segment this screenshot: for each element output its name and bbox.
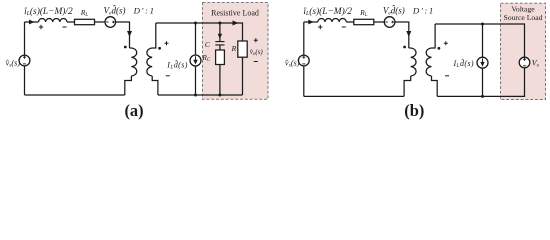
svg-text:(b): (b) [404, 101, 424, 120]
voltage source V_o [519, 57, 530, 68]
wire secondary bottom rail (b) [437, 68, 524, 97]
svg-text:(a): (a) [124, 101, 143, 120]
secondary polarity + [165, 41, 169, 45]
svg-text:îL(s)(L−M)/2: îL(s)(L−M)/2 [24, 6, 73, 17]
current arrow i_L (b) [308, 20, 314, 25]
svg-text:Ved̂(s): Ved̂(s) [104, 5, 126, 17]
arrow into C [218, 34, 222, 39]
wire bottom primary [304, 95, 404, 97]
resistor R_L (b) [354, 19, 374, 24]
wire to transformer [395, 22, 409, 48]
svg-text:ILd̂(s): ILd̂(s) [452, 57, 474, 69]
phase dot secondary [438, 47, 441, 50]
wire left rail [303, 22, 305, 96]
svg-text:D′:1: D′:1 [412, 5, 435, 15]
inductor (L-M)/2 (b) [318, 19, 346, 22]
svg-text:Ved̂(s): Ved̂(s) [383, 5, 405, 17]
source v_s (b) [298, 55, 309, 66]
v_o polarity + [254, 38, 258, 42]
arrow into transformer [406, 31, 411, 37]
wire [374, 21, 385, 23]
capacitor C [215, 42, 224, 45]
wire current source branch (a) [195, 23, 197, 95]
load box Resistive Load [203, 3, 269, 100]
svg-text:R: R [231, 44, 237, 53]
current source I_L d(s) (a) [190, 55, 201, 66]
wire capacitor branch [219, 23, 221, 50]
wire [346, 21, 354, 23]
inductor polarity + [318, 25, 322, 29]
transformer primary winding (a) [125, 48, 137, 95]
svg-text:v̂s(s): v̂s(s) [6, 58, 21, 68]
inductor polarity - [342, 26, 346, 28]
transformer secondary winding (a) [147, 23, 158, 95]
source v_s (a) [19, 55, 30, 66]
dependent source Ve*d(s) (b) [384, 17, 395, 28]
resistor R [238, 41, 247, 57]
junction dot [481, 95, 484, 98]
load box Voltage Source Load [501, 3, 546, 99]
current arrow i_L (a) [29, 20, 35, 25]
svg-text:îL(s)(L−M)/2: îL(s)(L−M)/2 [303, 6, 352, 17]
junction dot [194, 94, 197, 97]
junction dot [218, 22, 221, 25]
current source I_L d(s) (b) [477, 57, 488, 68]
wire [67, 21, 75, 23]
transformer primary winding (b) [404, 48, 416, 96]
svg-text:v̂o(s): v̂o(s) [250, 48, 264, 57]
arrow into transformer [127, 31, 132, 37]
wire below R [242, 57, 244, 95]
inductor (L-M)/2 (a) [39, 19, 67, 22]
svg-text:Resistive Load: Resistive Load [211, 9, 259, 18]
inductor polarity + [39, 25, 43, 29]
svg-text:ILd̂(s): ILd̂(s) [166, 59, 188, 71]
junction dot [218, 94, 221, 97]
phase dot secondary [158, 47, 161, 50]
secondary polarity - [166, 75, 170, 77]
secondary polarity + [444, 41, 448, 45]
wire secondary top rail (b) [435, 24, 524, 57]
phase dot primary [403, 46, 406, 49]
svg-text:v̂s(s): v̂s(s) [285, 58, 300, 68]
wire secondary top rail (a) [156, 23, 243, 41]
transformer secondary winding (b) [426, 24, 437, 96]
wire secondary bottom rail (a) [158, 94, 243, 96]
resistor R_C [216, 50, 225, 65]
inductor polarity - [63, 26, 67, 28]
wire top [25, 21, 39, 23]
wire bottom primary [25, 94, 125, 96]
wire top [304, 21, 318, 23]
junction dot [194, 22, 197, 25]
v_o polarity - [254, 61, 258, 63]
dependent source Ve*d(s) (a) [105, 17, 116, 28]
svg-text:C: C [205, 40, 210, 49]
svg-text:D′:1: D′:1 [133, 5, 156, 15]
wire left rail [24, 22, 26, 95]
junction dot [481, 23, 484, 26]
wire below R_C [219, 65, 221, 96]
wire to transformer [116, 22, 130, 48]
svg-text:Source Load: Source Load [503, 13, 542, 22]
secondary polarity - [445, 75, 449, 77]
wire current source branch (b) [482, 24, 484, 96]
resistor R_L (a) [75, 19, 95, 24]
phase dot primary [124, 46, 127, 49]
arrow on rail (a) [233, 21, 239, 26]
wire [95, 21, 106, 23]
